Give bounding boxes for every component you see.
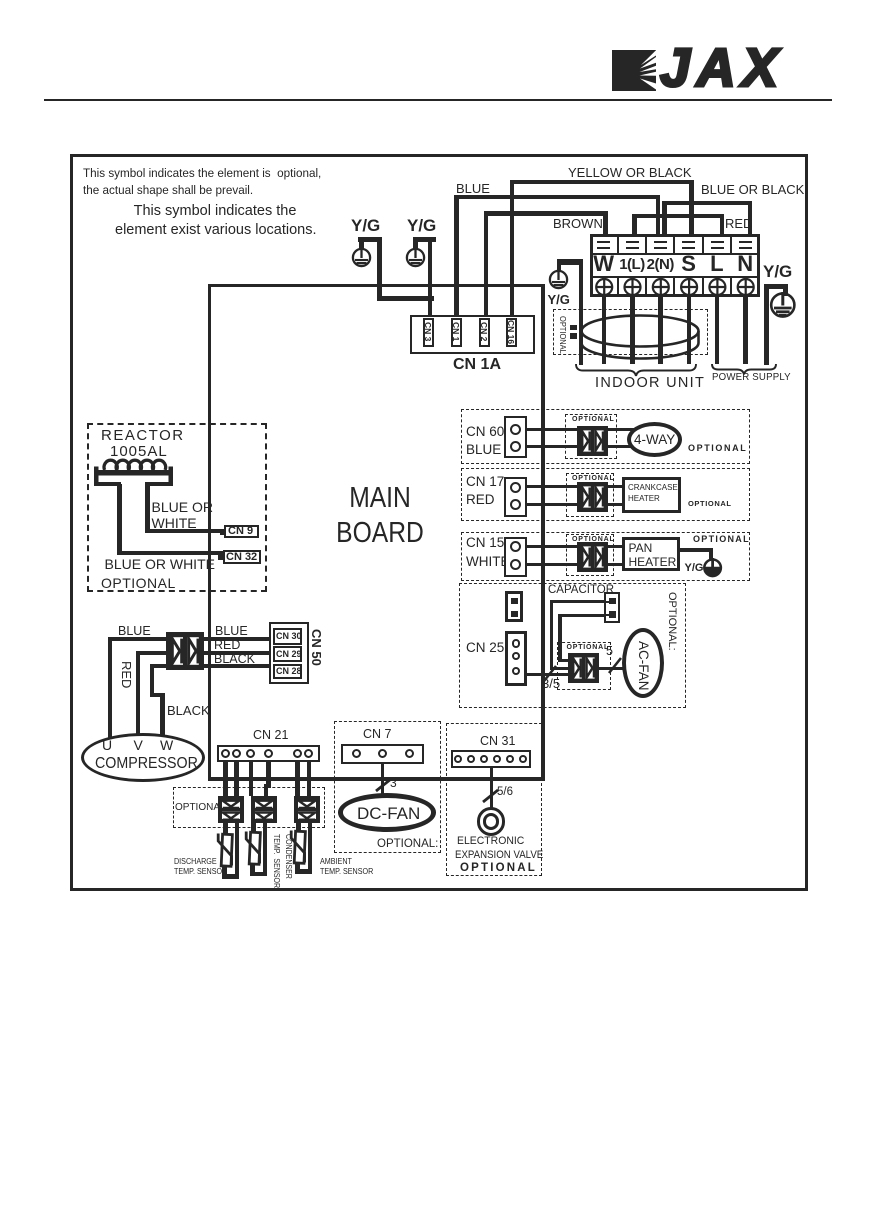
header rule: [44, 99, 832, 101]
capacitor C1: [604, 592, 620, 623]
wire CN25 to connector pair: [527, 673, 568, 676]
wire Y/G left bar: [358, 237, 382, 242]
wire CN15 lower: [527, 563, 577, 566]
label Y/G left: [351, 217, 380, 234]
wire power earth bar: [764, 284, 788, 289]
connector CN28: [273, 664, 303, 679]
label AMBIENT TEMP. SENSOR: [320, 857, 373, 878]
wire CN7 to DC-FAN: [381, 764, 384, 795]
label Y/G (pan heater): [685, 563, 704, 574]
wire CN21-6 down: [307, 762, 312, 796]
wire CN17 upper: [527, 485, 577, 488]
wire CN21-3 down: [249, 762, 254, 796]
label CN 60: [466, 425, 504, 439]
label BLUE (cn50): [215, 625, 248, 638]
brace power supply: [711, 364, 777, 375]
label BLUE OR WHITE (upper): [152, 500, 213, 531]
label BLACK (cn50): [214, 653, 255, 666]
tick 5/6: [481, 787, 501, 805]
wire BROWN down to W: [603, 211, 608, 240]
wire YELLOW OR BLACK down to S: [689, 180, 694, 241]
connector CN16: [506, 318, 517, 347]
wire CN15 upper: [527, 545, 577, 548]
wire BLUE to compressor U: [108, 637, 171, 641]
wire CN21-5 down: [295, 762, 300, 796]
wire BLUE OR BLACK horizontal: [662, 201, 752, 206]
inductor L1: [92, 453, 177, 489]
wire CN60 lower: [527, 445, 577, 448]
connector CN1: [451, 318, 462, 347]
CN25 dashed box: [459, 583, 686, 708]
wire Y/G right down to CN3: [428, 237, 433, 320]
label CAPACITOR: [548, 585, 614, 597]
wire YELLOW OR BLACK horizontal: [510, 180, 693, 185]
CN7 dashed box: [334, 721, 441, 853]
connector pair symbol (CN15) optional box: [566, 534, 614, 576]
label BROWN: [553, 217, 603, 230]
label CN 1A: [453, 357, 501, 373]
wire S down: [687, 295, 692, 364]
label BLUE OR WHITE (lower): [105, 557, 215, 571]
wire RED down to 1(L): [632, 214, 637, 241]
CN31 dashed box: [446, 723, 542, 876]
label CN 21: [253, 729, 288, 742]
label CN 50 (rotated): [310, 629, 323, 666]
connector pair symbol (CN17) optional box: [566, 473, 614, 517]
note text various locations: [115, 202, 315, 240]
terminal block bottom row dividers: [617, 277, 619, 297]
wire L down: [715, 295, 720, 364]
label RED (rotated): [120, 661, 133, 688]
wire capacitor upper: [551, 600, 604, 603]
reactor dashed box: [87, 423, 267, 592]
wire to pan heater lower: [607, 563, 622, 566]
expansion valve outer: [477, 807, 506, 836]
label INDOOR UNIT: [595, 376, 705, 391]
pan heater box: [622, 537, 680, 572]
expansion valve inner: [483, 813, 500, 830]
wire to crankcase lower: [607, 503, 622, 506]
4-WAY valve ellipse: [627, 422, 682, 457]
terminal block row separators: [590, 253, 760, 255]
wire reactor to CN9: [145, 529, 225, 533]
tick 3: [374, 776, 394, 794]
CN17 dashed box: [461, 468, 750, 521]
wire 2(N) down: [658, 295, 663, 364]
label CN 31: [480, 735, 515, 748]
label OPTIONAL (indoor, rotated): [558, 316, 567, 354]
wire RED to compressor V: [136, 651, 171, 655]
label Y/G right: [407, 217, 436, 234]
terminal block outline: [590, 234, 760, 298]
wire power earth stub to ground: [783, 284, 788, 296]
label YELLOW OR BLACK: [568, 166, 692, 179]
connector pair symbol (condenser sensor): [251, 796, 277, 823]
wire reactor left leg: [117, 484, 122, 555]
wire Y/G left horizontal to CN3: [377, 296, 434, 301]
label OPTIONAL (CN17 row): [688, 500, 732, 508]
logo JAX icon: [612, 50, 657, 91]
wire N down: [743, 295, 748, 364]
ground Y/G at W terminal: bar: [557, 259, 584, 265]
thermistor RT2 condenser: [251, 822, 256, 833]
wire RED to CN29: [204, 651, 272, 655]
label DISCHARGE TEMP. SENSOR: [174, 857, 227, 878]
connector pair symbol (CN25) optional box: [557, 642, 612, 690]
label REACTOR: [101, 428, 185, 443]
label 5/6: [497, 787, 513, 799]
label DC-FAN: [357, 805, 420, 822]
ground symbol at W terminal: [549, 269, 569, 291]
wire CN21-2 down: [234, 762, 239, 796]
wire Y/G left stub: [359, 239, 364, 249]
label Y/G right of terminal: [763, 263, 792, 280]
thermistor RT1 discharge: [223, 822, 228, 835]
wire CN21-1 down: [223, 762, 228, 796]
label OPTIONAL (valve): [460, 863, 537, 875]
wire BLACK to CN28: [204, 664, 272, 668]
wire to AC-FAN: [598, 667, 625, 670]
label MAIN BOARD: [312, 481, 448, 551]
tick 3/5: [540, 662, 560, 684]
wire BLACK to compressor W: [150, 664, 171, 668]
wire Y/G right stub: [413, 239, 418, 249]
label CN 25: [466, 641, 504, 655]
label BLUE OR BLACK: [701, 183, 804, 196]
connector CN31: [451, 750, 531, 769]
label OPTIONAL: (dc fan): [377, 839, 438, 851]
crankcase heater box: [622, 477, 681, 514]
label OPTIONAL (sensors): [175, 803, 226, 813]
label WHITE (CN15): [466, 555, 510, 569]
connector CN29: [273, 646, 303, 662]
wire pan heater to ground: [680, 548, 713, 552]
connector CN17: [504, 477, 527, 517]
connector CN7: [341, 744, 425, 765]
connector pair symbol (ambient sensor): [294, 796, 320, 823]
wire 1(L) down: [630, 295, 635, 364]
terminal screw slots (6 cells, two lines each): [597, 241, 610, 243]
label RED: [725, 217, 752, 230]
label V: [134, 738, 143, 752]
label Y/G at W terminal: [548, 293, 570, 306]
compressor M1 ellipse: [81, 733, 205, 782]
CN15 dashed box: [461, 532, 750, 581]
label BLUE (CN60): [466, 443, 501, 457]
connector CN1A outline: [410, 315, 535, 354]
wire reactor right leg: [145, 484, 150, 533]
wire BROWN down to CN2: [484, 211, 489, 320]
wire BROWN horizontal: [484, 211, 608, 216]
connector CN2: [479, 318, 490, 347]
label OPTIONAL (CN60 row): [688, 444, 747, 453]
label 5: [606, 645, 613, 658]
wire CN21-4 down (jog): [266, 762, 271, 788]
ferrite tabs: [570, 325, 577, 331]
connector pair symbol CN17: [577, 482, 608, 512]
connector CN25: [505, 631, 528, 686]
connector pair symbol (CN60) optional box: [565, 414, 617, 459]
ground Y/G at W: stub down: [557, 262, 562, 271]
connector pair symbol (discharge sensor): [218, 796, 244, 823]
thermistor RT3 ambient: [296, 822, 301, 832]
sensors optional dashed box: [173, 787, 325, 828]
connector CN21: [217, 745, 320, 763]
connector CN3: [423, 318, 434, 347]
terminal screws (circles with cross) x6: [590, 277, 760, 297]
wire BLUE OR BLACK down to 2(N): [662, 201, 667, 241]
wire capacitor lower: [560, 614, 605, 617]
label AC-FAN (rotated): [636, 641, 650, 691]
tick 5: [605, 654, 625, 676]
wire BLUE down to 2(N): [656, 195, 661, 241]
label CN 15: [466, 536, 504, 550]
connector pair symbol CN25: [568, 653, 599, 683]
label BLUE: [456, 182, 490, 195]
connector pair symbol CN60: [577, 426, 608, 456]
label W: [160, 738, 173, 752]
connector 2-pin (top): [505, 591, 523, 622]
connector CN32: [218, 555, 223, 560]
label CN 7: [363, 728, 391, 741]
label 1005AL: [110, 444, 168, 459]
connector CN60: [504, 416, 527, 458]
brace indoor unit: [575, 364, 697, 376]
logo JAX text: [660, 41, 785, 96]
ground symbol left: [352, 247, 372, 269]
ground symbol right: [406, 247, 426, 269]
wire W down: [602, 295, 607, 364]
label RED (cn50): [214, 639, 240, 652]
label OPTIONAL (CN15 row): [693, 535, 750, 544]
terminal labels W 1(L) 2(N) S L N: [590, 253, 618, 275]
ferrite ring core: [560, 305, 720, 365]
label 3: [390, 777, 397, 789]
connector CN9: [220, 530, 225, 535]
wire BLUE OR BLACK down to N: [748, 201, 753, 241]
connector CN15: [504, 537, 527, 577]
note text optional symbol: [83, 165, 321, 201]
wire BLUE to CN30: [204, 637, 272, 641]
DC-FAN motor ellipse: [338, 793, 436, 832]
indoor unit dashed box: [553, 309, 708, 355]
label BLACK (lower): [167, 704, 210, 717]
terminal block top row dividers: [617, 234, 619, 254]
label CONDENSER TEMP. SENSOR (rotated): [271, 834, 294, 888]
connector pair symbol CN15: [577, 542, 608, 572]
label COMPRESSOR: [95, 756, 198, 772]
wire RED down to L: [720, 214, 725, 241]
label EXPANSION VALVE: [455, 850, 543, 861]
label RED (CN17): [466, 493, 495, 507]
label OPTIONAL (reactor): [101, 576, 176, 590]
connector CN30: [273, 628, 303, 645]
wire reactor to CN32: [117, 551, 223, 555]
wire to crankcase upper: [607, 485, 622, 488]
wire CN60 upper: [527, 428, 577, 431]
wire Y/G right bar: [413, 237, 437, 242]
label U: [102, 738, 112, 752]
wire BLUE down to CN1: [454, 195, 459, 321]
wire YELLOW OR BLACK down to CN16: [510, 180, 515, 321]
label BLUE (compressor): [118, 625, 151, 638]
CN60 dashed box: [461, 409, 750, 464]
connector CN50 outline: [269, 622, 309, 684]
ground symbol pan heater: [703, 558, 723, 578]
wire to pan heater upper: [607, 545, 622, 548]
label ELECTRONIC: [457, 836, 524, 847]
wire Y/G left down: [377, 237, 382, 301]
wire CN31 to valve: [490, 768, 493, 808]
label POWER SUPPLY: [712, 372, 791, 383]
wire RED horizontal: [632, 214, 724, 219]
connector pair symbol (compressor): [166, 632, 204, 670]
label CN 17: [466, 475, 504, 489]
wire indoor earth down: [579, 259, 584, 365]
main board outline: [208, 284, 545, 781]
wire to 4-WAY upper: [607, 428, 642, 431]
ground symbol power supply: [770, 292, 796, 319]
wire BLUE horizontal: [454, 195, 660, 200]
wire CN17 lower: [527, 503, 577, 506]
label 3/5: [542, 677, 560, 690]
wire power earth down: [764, 284, 769, 365]
wire to 4-WAY lower: [607, 445, 642, 448]
AC-FAN motor ellipse: [622, 628, 664, 698]
label OPTIONAL: (CN25 row, rotated): [666, 592, 677, 651]
